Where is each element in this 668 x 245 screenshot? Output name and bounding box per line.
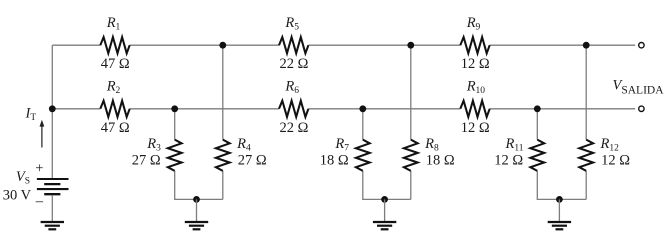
resistor R7 [356, 140, 370, 171]
svg-text:47 Ω: 47 Ω [101, 56, 130, 72]
ground (branch pair 1) [185, 221, 208, 223]
svg-text:27 Ω: 27 Ω [238, 153, 267, 169]
resistor R2 [100, 101, 129, 117]
wire: branch R3 vertical + bottom bus [175, 109, 223, 200]
battery VS plate short [44, 183, 60, 185]
wire: branch R8 vertical from top rail [410, 45, 412, 199]
svg-text:+: + [35, 161, 43, 177]
svg-text:R11: R11 [504, 136, 523, 154]
junction: bottom bus / ground [556, 196, 563, 203]
resistor R8 [404, 140, 418, 171]
junction: top rail / R4 [219, 42, 226, 49]
current arrow IT [41, 126, 43, 148]
ground (battery) [41, 221, 64, 223]
junction: bottom bus / ground [381, 196, 388, 203]
wire: middle rail [52, 108, 635, 110]
svg-text:R3: R3 [146, 136, 161, 154]
svg-text:R5: R5 [284, 15, 299, 33]
resistor R5 [279, 37, 308, 53]
junction: middle rail / R3 [171, 105, 178, 112]
resistor R1 [100, 37, 129, 53]
svg-text:VS: VS [16, 169, 30, 187]
wire: branch R12 vertical from top rail [585, 45, 587, 199]
svg-text:R10: R10 [466, 79, 486, 97]
resistor R3 [168, 140, 182, 171]
wire: top rail [52, 44, 635, 46]
svg-text:R7: R7 [334, 136, 349, 154]
battery VS plate long (+) [37, 178, 69, 180]
junction: bottom bus / ground [193, 196, 200, 203]
svg-text:R6: R6 [284, 79, 299, 97]
svg-text:12 Ω: 12 Ω [461, 56, 490, 72]
battery VS plate short (-) [44, 193, 60, 195]
svg-text:R8: R8 [424, 136, 439, 154]
resistor R9 [460, 37, 489, 53]
wire: ground stub [558, 199, 560, 221]
svg-text:12 Ω: 12 Ω [461, 120, 490, 136]
battery VS plate long [37, 188, 69, 190]
wire: ground stub [384, 199, 386, 221]
junction: middle rail / R11 [534, 105, 541, 112]
resistor R6 [279, 101, 308, 117]
svg-text:R1: R1 [106, 15, 121, 33]
wire: branch R7 vertical + bottom bus [363, 109, 411, 200]
ground (branch pair 3) [548, 221, 571, 223]
svg-text:18 Ω: 18 Ω [320, 153, 349, 169]
svg-text:VSALIDA: VSALIDA [613, 78, 665, 97]
resistor R11 [530, 140, 544, 171]
svg-text:27 Ω: 27 Ω [132, 153, 161, 169]
terminal: top output (open circle) [639, 43, 644, 48]
svg-text:–: – [35, 193, 44, 209]
wire: branch R4 vertical from top rail [222, 45, 224, 199]
ground (branch pair 2) [373, 221, 396, 223]
svg-text:R4: R4 [236, 136, 251, 154]
svg-text:18 Ω: 18 Ω [426, 153, 455, 169]
junction: top rail / R12 [583, 42, 590, 49]
svg-text:IT: IT [25, 106, 37, 124]
wire: branch R11 vertical + bottom bus [537, 109, 586, 200]
svg-text:R2: R2 [106, 79, 121, 97]
resistor R10 [460, 101, 489, 117]
resistor R4 [216, 140, 230, 171]
svg-text:47 Ω: 47 Ω [101, 120, 130, 136]
node: battery / rails junction [49, 105, 56, 112]
svg-text:22 Ω: 22 Ω [280, 56, 309, 72]
resistor R12 [579, 140, 593, 171]
junction: middle rail / R7 [359, 105, 366, 112]
svg-text:12 Ω: 12 Ω [494, 153, 523, 169]
junction: top rail / R8 [407, 42, 414, 49]
svg-text:R9: R9 [466, 15, 481, 33]
wire: ground stub [196, 199, 198, 221]
svg-text:R12: R12 [600, 136, 620, 154]
wire: battery negative to ground [51, 195, 53, 221]
wire: left vertical from top rail to battery [51, 45, 53, 178]
svg-text:12 Ω: 12 Ω [601, 153, 630, 169]
terminal: VSALIDA output (open circle) [639, 106, 644, 111]
svg-text:22 Ω: 22 Ω [280, 120, 309, 136]
svg-text:30 V: 30 V [3, 187, 32, 203]
